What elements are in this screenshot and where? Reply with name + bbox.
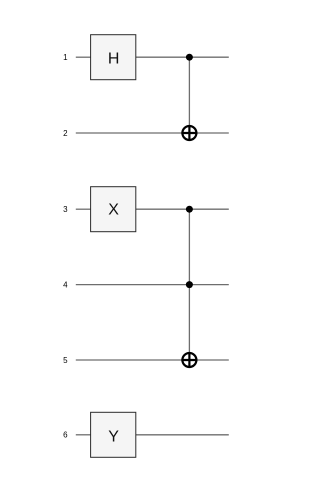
svg-text:Y: Y	[108, 428, 119, 445]
svg-text:H: H	[108, 51, 120, 68]
svg-text:X: X	[108, 202, 119, 219]
wire q6 left segment	[76, 434, 91, 436]
wire vertical CNOT connector q1-q2	[188, 57, 190, 125]
svg-text:3: 3	[63, 205, 68, 214]
wire q1 left segment	[76, 56, 91, 58]
svg-text:4: 4	[63, 280, 68, 289]
wire q2	[76, 132, 229, 134]
svg-text:6: 6	[63, 431, 68, 440]
control dot on q4	[186, 281, 193, 288]
gate H box	[91, 35, 136, 80]
gate X box	[91, 187, 136, 232]
CNOT target on q2	[181, 125, 197, 141]
wire q5	[76, 359, 229, 361]
Toffoli target on q5	[181, 352, 197, 368]
control dot on q3	[186, 206, 193, 213]
control dot on q1	[186, 54, 193, 61]
wire q4	[76, 284, 229, 286]
svg-text:2: 2	[63, 129, 68, 138]
wire vertical Toffoli connector q3-q5	[188, 209, 190, 352]
gate Y box	[91, 412, 136, 457]
wire q1 right segment	[136, 56, 229, 58]
wire q3 left segment	[76, 208, 91, 210]
wire q3 right segment	[136, 208, 229, 210]
svg-text:1: 1	[63, 53, 68, 62]
wire q6 right segment	[136, 434, 229, 436]
svg-text:5: 5	[63, 356, 68, 365]
